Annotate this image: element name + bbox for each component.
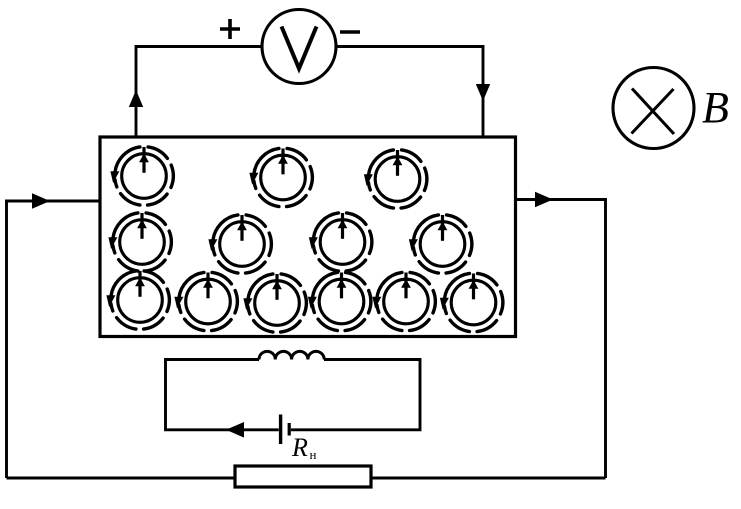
svg-text:B: B (702, 83, 729, 132)
svg-text:R: R (291, 433, 308, 462)
svg-text:н: н (310, 447, 317, 462)
